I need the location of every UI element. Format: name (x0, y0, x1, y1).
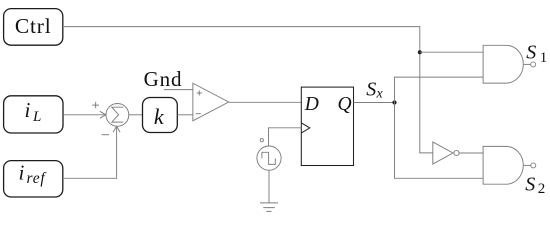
svg-text:2: 2 (538, 181, 546, 197)
wire junction to AND gate S1 top input (420, 51, 483, 53)
wire gain k to op-amp inverting input (177, 114, 192, 116)
clock source V1 (257, 146, 281, 170)
svg-text:ref: ref (27, 170, 48, 187)
svg-text:i: i (25, 98, 31, 122)
svg-text:1: 1 (540, 50, 548, 66)
svg-text:D: D (304, 94, 319, 115)
svg-text:S: S (525, 173, 535, 195)
svg-text:Ctrl: Ctrl (15, 14, 52, 38)
wire node Sx down to AND gate S2 bottom input (395, 103, 484, 179)
ground (260, 203, 278, 212)
svg-text:x: x (376, 87, 384, 102)
wire Gnd to op-amp non-inverting input (164, 89, 193, 91)
svg-text:Gnd: Gnd (144, 67, 183, 91)
junction dot node Sx (392, 100, 396, 104)
node Sx label (366, 78, 383, 101)
svg-text:L: L (32, 109, 41, 125)
op-amp U1 (193, 83, 229, 121)
svg-text:i: i (19, 161, 25, 185)
minus label at summing junction (102, 134, 109, 136)
wire op-amp output to flip-flop D input (229, 101, 302, 103)
wire node Sx up to AND gate S1 bottom input (395, 77, 484, 102)
open terminal circle near clock source (260, 139, 263, 142)
flip-flop U2 box (301, 87, 353, 165)
gain block k (143, 98, 178, 133)
output terminal circle S1 (531, 62, 536, 67)
flip-flop clock wedge (301, 123, 309, 133)
and gate U3 (483, 45, 523, 83)
output terminal circle S2 (531, 163, 536, 168)
and gate U3 output stub (523, 63, 530, 65)
arrowhead into summing junction bottom (113, 126, 120, 132)
op-amp minus input label (196, 113, 201, 115)
block iref (4, 161, 63, 198)
wire iref to summing junction bottom (63, 127, 117, 179)
wire iL to summing junction (63, 114, 106, 116)
wire Ctrl output to inverter input (63, 27, 433, 153)
svg-text:S: S (366, 78, 376, 100)
plus label at summing junction (92, 102, 99, 108)
op-amp plus input label (197, 91, 202, 96)
sigma symbol (112, 107, 123, 122)
svg-text:k: k (154, 104, 165, 129)
arrowhead into summing junction left (100, 111, 106, 118)
svg-text:Q: Q (338, 94, 352, 115)
svg-text:S: S (526, 42, 536, 64)
wire clock source to ground (268, 170, 270, 203)
junction dot on Ctrl line (418, 50, 422, 54)
block Ctrl (4, 9, 63, 46)
wire flip-flop Q output to node Sx (354, 102, 395, 104)
net S2 label (525, 173, 545, 197)
wire summing junction to gain k (129, 114, 143, 116)
and gate U5 (483, 146, 523, 184)
block iL (4, 96, 63, 133)
summing junction (106, 104, 129, 127)
and gate U5 output stub (523, 164, 530, 166)
wire clock source to flip-flop clock input (269, 128, 302, 146)
net S1 label (526, 42, 547, 66)
inverter U4 (433, 142, 459, 164)
wire inverter output to AND gate S2 top input (459, 152, 483, 154)
